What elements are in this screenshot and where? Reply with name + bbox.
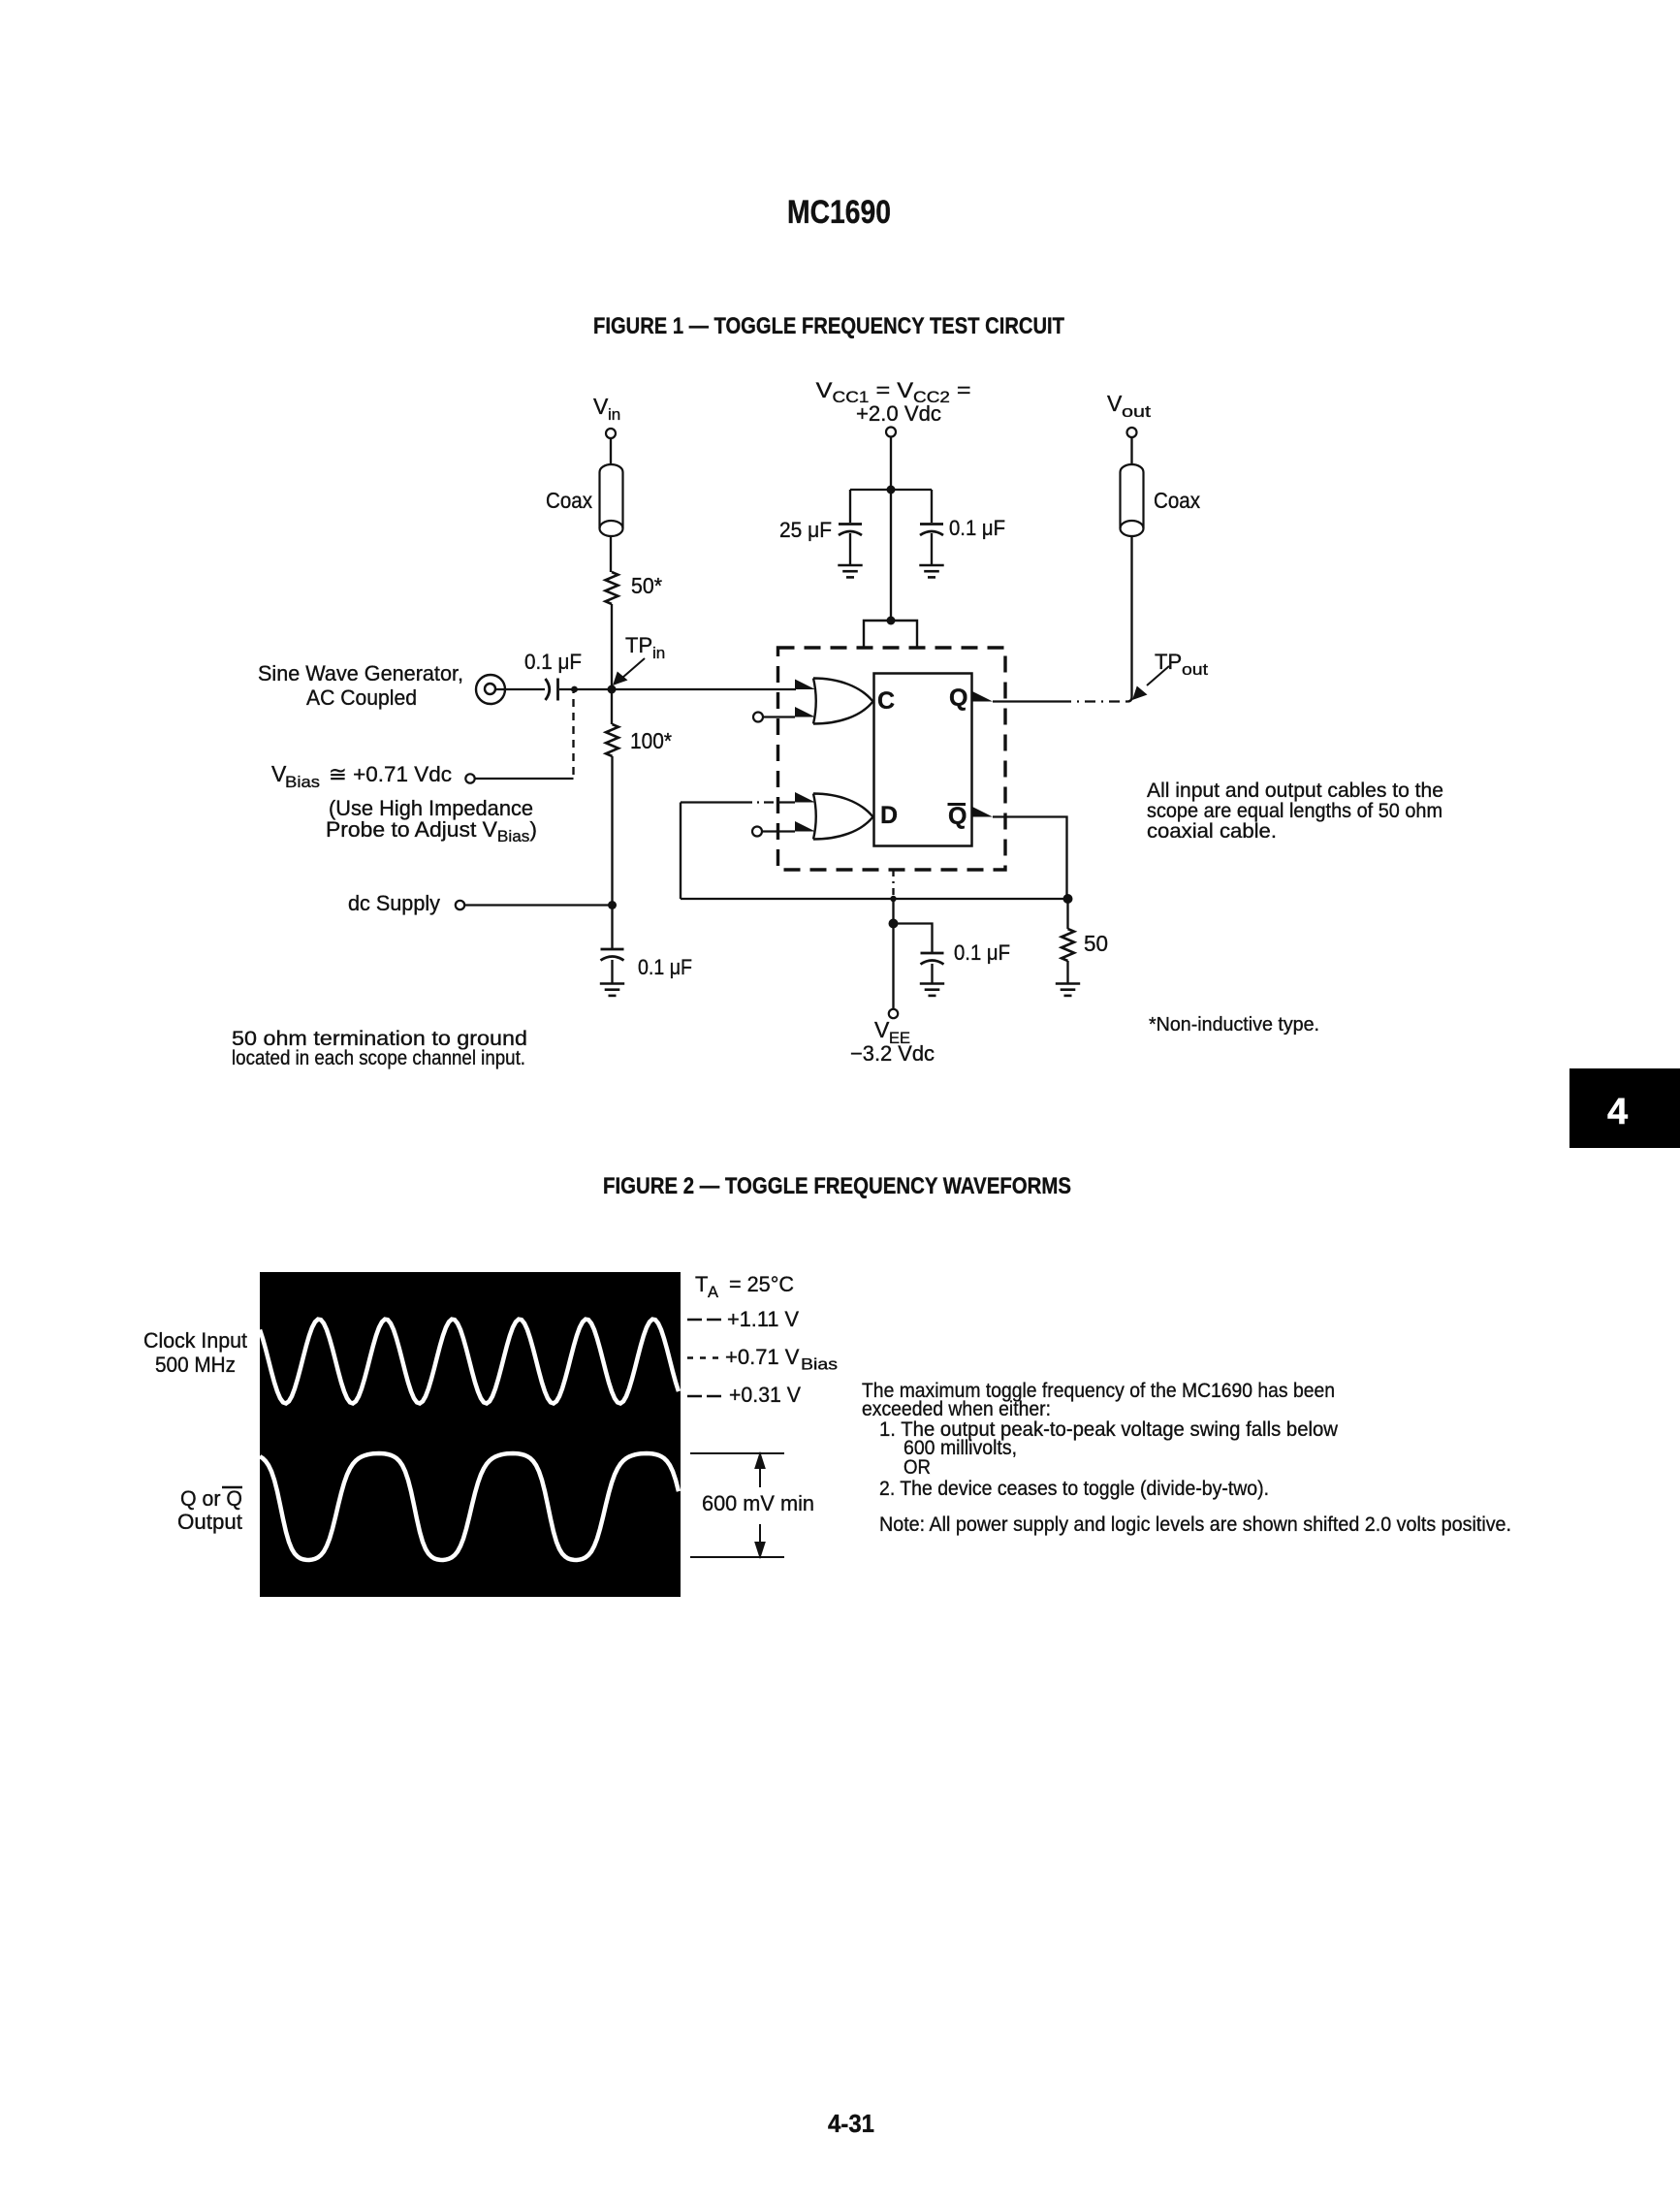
svg-text:in: in xyxy=(652,644,665,662)
ground at 50 ohm xyxy=(1056,984,1080,996)
svg-text:Bias: Bias xyxy=(285,774,320,791)
svg-text:FIGURE 1 — TOGGLE FREQUENCY TE: FIGURE 1 — TOGGLE FREQUENCY TEST CIRCUIT xyxy=(593,313,1064,339)
wire rail to 25uF cap xyxy=(849,490,851,523)
flip-flop box U1 xyxy=(874,674,972,846)
coax cylinder right xyxy=(1121,464,1144,536)
ground at bottom-left cap xyxy=(600,984,624,996)
wire 100ohm to dc supply junction to bottom cap xyxy=(611,756,613,948)
ground at 25uF xyxy=(838,565,862,577)
svg-text:Coax: Coax xyxy=(546,488,592,513)
ground at VEE cap xyxy=(920,984,944,996)
svg-text:0.1 μF: 0.1 μF xyxy=(524,650,582,674)
capacitor 25uF xyxy=(839,525,862,536)
sine wave generator xyxy=(476,675,505,704)
svg-text:Output: Output xyxy=(177,1510,242,1534)
arrow Qbar output xyxy=(972,807,993,817)
wire Q output xyxy=(993,700,1061,702)
Q output waveform trace xyxy=(260,1453,679,1560)
svg-text:4-31: 4-31 xyxy=(828,2109,874,2138)
600mV bottom reference line xyxy=(690,1556,784,1558)
wire OR1 lower input stub xyxy=(763,716,795,717)
wire VEE cap branch xyxy=(894,924,933,953)
svg-text:0.1 μF: 0.1 μF xyxy=(954,940,1010,965)
svg-text:+1.11 V: +1.11 V xyxy=(727,1307,799,1331)
junction dot TPin xyxy=(608,685,617,694)
wire coax1 to R50 xyxy=(610,537,612,572)
wire TPin junction to OR1 input xyxy=(612,688,796,690)
svg-text:TP: TP xyxy=(1155,650,1182,674)
TPout callout arrow xyxy=(1132,666,1169,700)
wire Qbar output to corner down to feedback junction xyxy=(993,817,1067,898)
600mV top reference line xyxy=(690,1452,784,1454)
svg-text:50: 50 xyxy=(1084,931,1108,956)
svg-text:Q or Q: Q or Q xyxy=(180,1486,242,1511)
junction dot VEE branch xyxy=(889,919,899,929)
oscillogram background xyxy=(260,1272,681,1597)
wire VEE cap to ground xyxy=(931,964,933,984)
svg-text:0.1 μF: 0.1 μF xyxy=(949,516,1005,540)
arrow OR1 input 1 xyxy=(795,680,815,690)
wire 0.1uF cap to ground xyxy=(931,533,933,565)
ground at 0.1uF top right xyxy=(919,565,943,577)
wire 50 ohm resistor to ground xyxy=(1066,961,1068,984)
arrow OR1 input 2 xyxy=(795,707,815,717)
wire Vin lead xyxy=(610,438,612,465)
svg-text:Coax: Coax xyxy=(1154,488,1200,513)
svg-text:Q: Q xyxy=(948,803,967,830)
level dash +0.71 (dashed) xyxy=(687,1356,718,1358)
svg-text:located in each scope channel: located in each scope channel input. xyxy=(232,1047,525,1069)
svg-text:600 mV min: 600 mV min xyxy=(702,1491,814,1515)
dashed package box xyxy=(778,648,1006,870)
wire cap rail horizontal xyxy=(850,489,932,491)
junction dot hat xyxy=(887,617,896,625)
wire coax2 down to TPout corner xyxy=(1127,537,1132,702)
terminal VBias xyxy=(465,774,474,782)
capacitor 0.1uF coupling (horizontal) xyxy=(546,679,558,701)
wire bottom-left cap to ground xyxy=(611,960,613,984)
wire OR2 lower input stub xyxy=(762,830,795,832)
capacitor 0.1uF at VEE xyxy=(921,953,944,965)
svg-text:Clock Input: Clock Input xyxy=(143,1328,247,1353)
svg-text:D: D xyxy=(880,802,898,829)
svg-text:50*: 50* xyxy=(631,573,662,598)
svg-text:in: in xyxy=(608,405,620,424)
wire VBias riser (dashed) xyxy=(572,692,574,775)
wire feedback top (Qbar side input to OR2): left vertical xyxy=(680,803,682,900)
OR gate G2 xyxy=(813,794,873,840)
600mV arrow upper xyxy=(756,1454,765,1556)
terminal OR1 lower input xyxy=(753,713,763,722)
svg-text:dc Supply: dc Supply xyxy=(348,891,440,915)
svg-text:= 25°C: = 25°C xyxy=(729,1272,794,1296)
svg-text:100*: 100* xyxy=(630,728,672,753)
TPin callout arrow xyxy=(613,658,645,685)
arrow Q output xyxy=(972,691,993,702)
junction dot feedback / 50 ohm xyxy=(1063,894,1073,904)
OR gate G1 xyxy=(813,679,873,724)
svg-text:Sine Wave Generator,: Sine Wave Generator, xyxy=(258,661,463,685)
svg-text:Bias: Bias xyxy=(801,1356,838,1374)
svg-text:MC1690: MC1690 xyxy=(787,194,891,231)
svg-text:Note: All power supply and log: Note: All power supply and logic levels … xyxy=(879,1513,1511,1536)
svg-text:Probe to Adjust VBias): Probe to Adjust VBias) xyxy=(326,817,537,845)
svg-text:4: 4 xyxy=(1607,1092,1628,1132)
svg-text:−3.2 Vdc: −3.2 Vdc xyxy=(850,1041,935,1066)
svg-text:A: A xyxy=(708,1284,718,1301)
hat bar over IC xyxy=(864,621,917,648)
level dash +0.31 xyxy=(687,1395,722,1397)
svg-text:+0.71 V: +0.71 V xyxy=(725,1345,800,1369)
wire VBias terminal to riser xyxy=(475,778,574,780)
svg-text:C: C xyxy=(877,687,895,715)
resistor 50 xyxy=(1062,929,1074,961)
chapter tab black xyxy=(1569,1068,1680,1148)
svg-text:V: V xyxy=(1107,391,1123,416)
wire rail to 0.1uF cap xyxy=(931,490,933,523)
svg-text:Q: Q xyxy=(949,685,967,712)
resistor 100* xyxy=(606,724,618,756)
terminal Vin xyxy=(606,429,616,438)
junction dot at coupling cap / VBias xyxy=(571,686,578,693)
svg-text:out: out xyxy=(1122,402,1151,421)
wire dc Supply terminal to trunk xyxy=(464,904,613,906)
terminal Vcc xyxy=(886,428,896,437)
terminal dc Supply xyxy=(456,901,464,909)
wire coupling cap to TPin junction xyxy=(559,688,612,690)
svg-text:+0.31 V: +0.31 V xyxy=(729,1383,801,1407)
capacitor 0.1uF top right xyxy=(920,525,943,536)
svg-text:≅ +0.71 Vdc: ≅ +0.71 Vdc xyxy=(329,762,452,786)
arrow OR2 input 1 xyxy=(795,792,815,803)
svg-text:0.1 μF: 0.1 μF xyxy=(638,955,692,979)
svg-text:out: out xyxy=(1182,660,1208,679)
svg-text:25 μF: 25 μF xyxy=(779,518,832,542)
svg-text:AC Coupled: AC Coupled xyxy=(306,685,417,710)
terminal VEE xyxy=(889,1009,898,1018)
svg-text:+2.0 Vdc: +2.0 Vdc xyxy=(856,401,941,426)
svg-text:TP: TP xyxy=(625,633,652,657)
wire VEE trunk xyxy=(892,899,894,1009)
junction dot VEE crossing xyxy=(890,896,896,902)
coax cylinder left xyxy=(600,464,623,536)
terminal Vout xyxy=(1127,428,1137,437)
svg-text:V: V xyxy=(593,394,609,419)
svg-text:FIGURE 2 — TOGGLE FREQUENCY WA: FIGURE 2 — TOGGLE FREQUENCY WAVEFORMS xyxy=(603,1173,1071,1199)
wire R50 to TPin junction and on down to 100ohm xyxy=(611,604,613,724)
svg-text:T: T xyxy=(695,1272,708,1296)
wire Vout lead xyxy=(1130,437,1132,465)
svg-text:OR: OR xyxy=(903,1455,931,1479)
svg-text:V: V xyxy=(874,1017,890,1042)
svg-text:500 MHz: 500 MHz xyxy=(155,1353,236,1377)
terminal OR2 lower input xyxy=(752,827,762,837)
wire 50 ohm resistor top lead xyxy=(1066,899,1068,929)
wire VEE dash-dot drop from package xyxy=(892,870,894,896)
svg-text:coaxial cable.: coaxial cable. xyxy=(1147,819,1277,843)
junction dot dc supply xyxy=(608,901,617,909)
clock input waveform trace xyxy=(260,1320,679,1404)
capacitor 0.1uF bottom left xyxy=(601,949,624,961)
svg-text:*Non-inductive type.: *Non-inductive type. xyxy=(1149,1013,1319,1035)
wire bottom feedback horizontal xyxy=(681,898,1068,900)
wire feedback to OR2 upper input (solid then dash-dot) xyxy=(681,801,743,803)
level dash +1.11 xyxy=(687,1319,722,1321)
junction dot Vcc rail xyxy=(887,486,896,494)
arrow OR2 input 2 xyxy=(795,821,815,832)
resistor 50* xyxy=(606,572,618,604)
wire 25uF cap to ground xyxy=(849,533,851,565)
wire Vcc terminal down to junction xyxy=(890,436,892,621)
wire Q output dash-dot segment to TPout corner xyxy=(1061,700,1127,702)
wire sine generator to coupling cap xyxy=(494,688,545,690)
svg-text:2. The device ceases to toggl: 2. The device ceases to toggle (divide-b… xyxy=(879,1477,1269,1500)
